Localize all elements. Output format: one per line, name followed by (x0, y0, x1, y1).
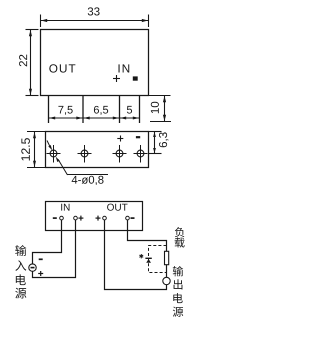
hole size label 4-o0,8 (72, 176, 104, 185)
load label (Chinese) (175, 227, 185, 248)
pin 4 (139, 96, 141, 124)
plus pin mark (bottom view) (117, 136, 123, 142)
IN label (schematic) (61, 204, 69, 211)
terminal OUT- minus sign (131, 217, 135, 219)
terminal IN+ circle (74, 216, 78, 220)
pin pitch dimension 5 (127, 106, 132, 114)
asterisk optional mark (drawn) (139, 254, 143, 258)
dimension label 12.5 (21, 138, 30, 160)
wire OUT+ to output source (105, 220, 167, 290)
optional zener diode (145, 257, 151, 259)
optional zener dashed branch (149, 246, 167, 273)
module base outline (bottom view) (46, 132, 149, 168)
dimension line 6,3 with extension lines (149, 132, 162, 154)
module body outline (top view) (41, 30, 149, 96)
OUT label (49, 64, 75, 72)
wire input source to IN+ (33, 220, 76, 278)
load resistor (165, 251, 169, 264)
mounting hole 1 crosshair (47, 145, 61, 163)
minus pin mark (bottom view) (136, 136, 140, 138)
hole diameter leader (47, 141, 108, 176)
terminal IN- minus sign (53, 217, 57, 219)
wire resistor to output source (166, 265, 168, 278)
wire IN- to input source (33, 220, 62, 264)
OUT label (schematic) (107, 204, 127, 211)
dimension line 22 with extension ticks (26, 30, 39, 96)
dimension line 12.5 with extension ticks (27, 132, 46, 168)
input power label (Chinese) (15, 245, 26, 299)
pin 1 (48, 96, 50, 124)
terminal OUT+ circle (103, 216, 107, 220)
dimension label 6,3 (159, 132, 169, 147)
pin 3 (119, 96, 121, 124)
dimension label 22 (19, 55, 27, 67)
terminal OUT+ plus sign (96, 216, 101, 221)
terminal OUT- circle (126, 216, 130, 220)
dimension line 33 with extension lines (41, 15, 149, 28)
plus polarity mark (top view) (113, 75, 120, 82)
mounting hole 3 crosshair (113, 145, 127, 163)
output power label (Chinese) (173, 266, 183, 317)
input plus label (38, 271, 43, 276)
mounting hole 4 crosshair (134, 145, 148, 163)
input minus label (39, 258, 43, 260)
pin pitch dimension 7,5 (58, 106, 72, 115)
output source circle (163, 277, 170, 284)
terminal IN+ plus sign (78, 216, 83, 221)
dimension label 33 (88, 7, 100, 15)
converter box (schematic) (46, 202, 143, 231)
terminal IN- circle (60, 216, 64, 220)
minus polarity mark (top view, filled square) (133, 76, 138, 80)
IN label (118, 64, 129, 72)
pin length dimension 10 (151, 102, 159, 113)
wire OUT- to load (128, 220, 167, 251)
pin 2 (82, 96, 84, 124)
pin pitch dimension 6,5 (94, 106, 108, 115)
mounting hole 2 crosshair (78, 145, 92, 163)
input source circle with minus (29, 264, 36, 271)
